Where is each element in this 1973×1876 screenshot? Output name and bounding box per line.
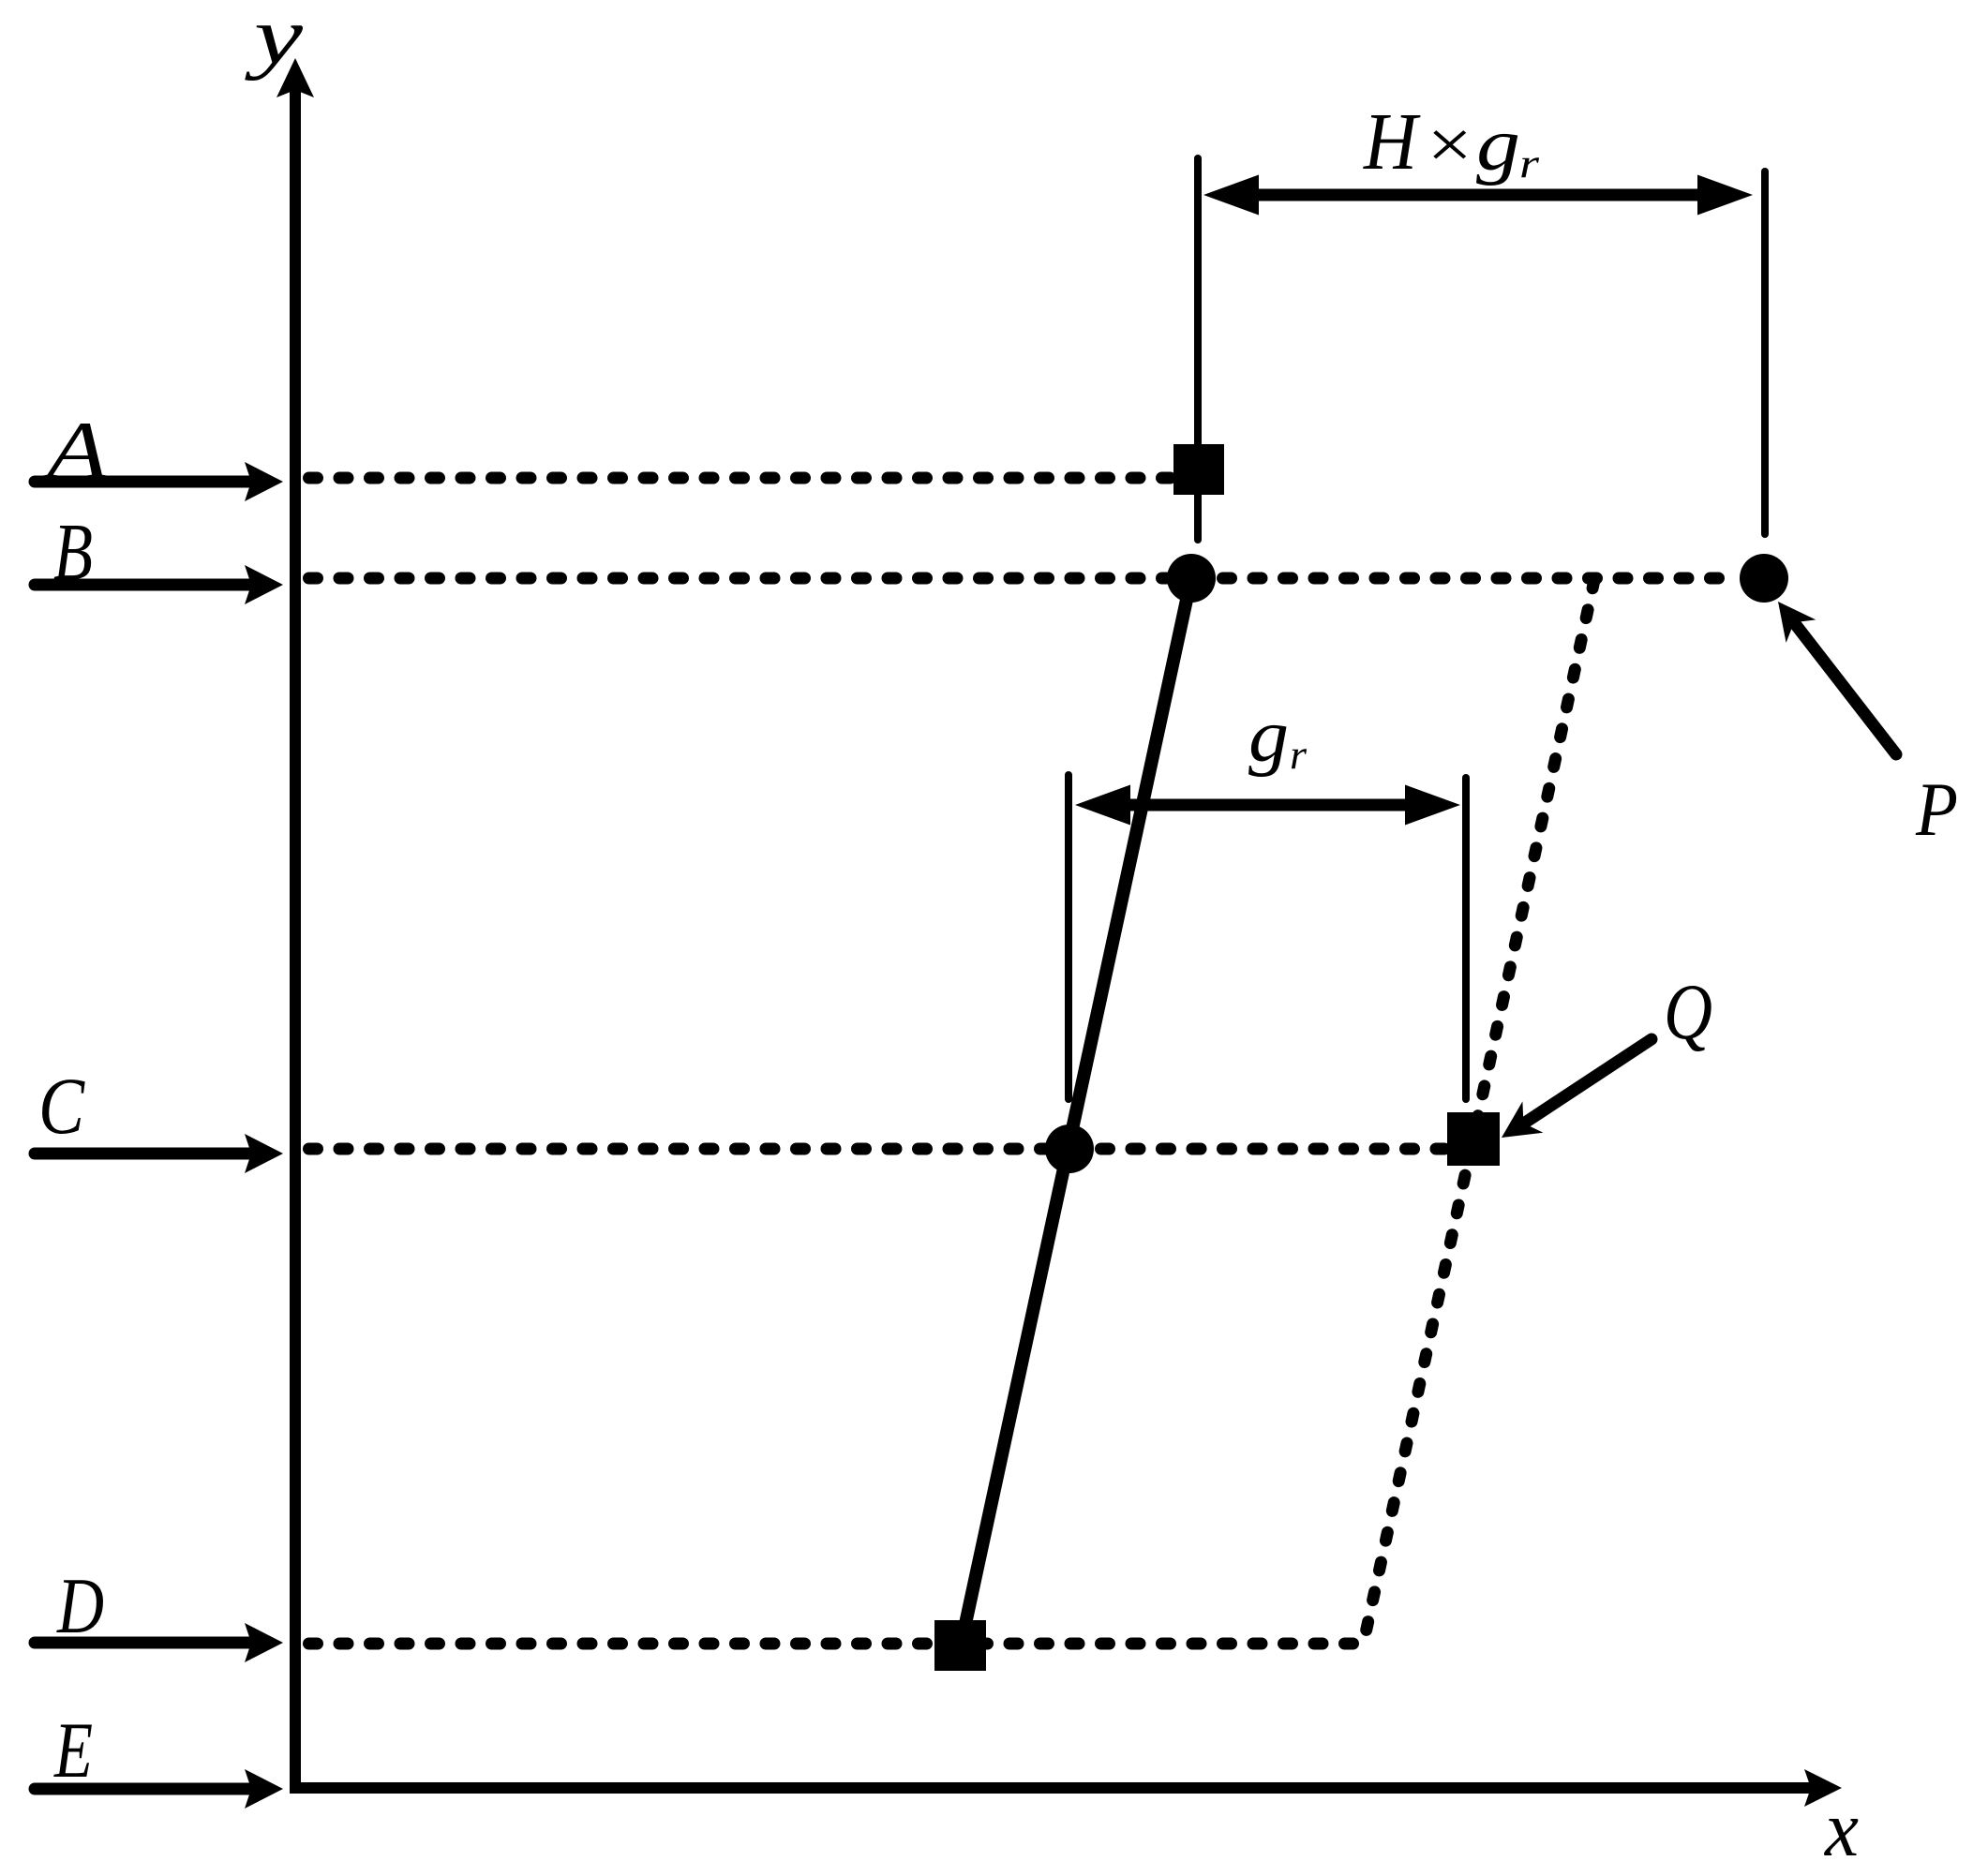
tick left of g_r [1065,775,1072,1099]
dashed level line B [309,573,1739,585]
pointer arrow to Q [1502,1039,1652,1138]
svg-text:x: x [1823,1785,1859,1873]
circle marker at C level [1045,1124,1094,1173]
svg-text:Q: Q [1664,968,1712,1056]
arrow A [35,462,283,501]
y-axis [277,58,314,1794]
svg-text:P: P [1915,767,1958,852]
svg-text:C: C [38,1061,85,1151]
svg-text:E: E [53,1706,93,1794]
tick at P [1761,171,1769,534]
svg-text:H: H [1363,96,1421,186]
svg-text:×: × [1422,107,1476,184]
arrow D [35,1623,283,1662]
dimension arrow g_r [1075,785,1460,826]
svg-text:B: B [53,506,93,597]
circle marker P [1740,554,1788,603]
pointer arrow to P [1778,602,1896,754]
x-axis [290,1769,1842,1807]
square marker at D level [934,1620,986,1671]
square marker at A level [1173,444,1224,495]
arrow C [35,1134,283,1173]
tick right of g_r [1462,778,1470,1099]
label g_r [1248,695,1308,778]
tick at A square [1194,158,1202,540]
arrow E [35,1769,283,1809]
svg-text:g: g [1476,104,1520,186]
dashed trajectory line [1364,580,1594,1642]
svg-text:g: g [1248,695,1289,778]
solid trajectory line [961,578,1191,1645]
square marker Q [1447,1112,1500,1166]
dashed level line D [309,1638,1360,1650]
dimension arrow H x g_r [1203,175,1753,216]
label H x g_r [1363,96,1540,186]
svg-text:r: r [1290,732,1308,778]
arrow B [35,565,283,604]
svg-text:r: r [1519,141,1540,186]
dashed level line C [309,1143,1446,1155]
circle marker at B level [1167,554,1216,603]
svg-text:A: A [41,406,110,497]
svg-text:D: D [56,1562,104,1650]
dashed level line A [309,472,1173,484]
